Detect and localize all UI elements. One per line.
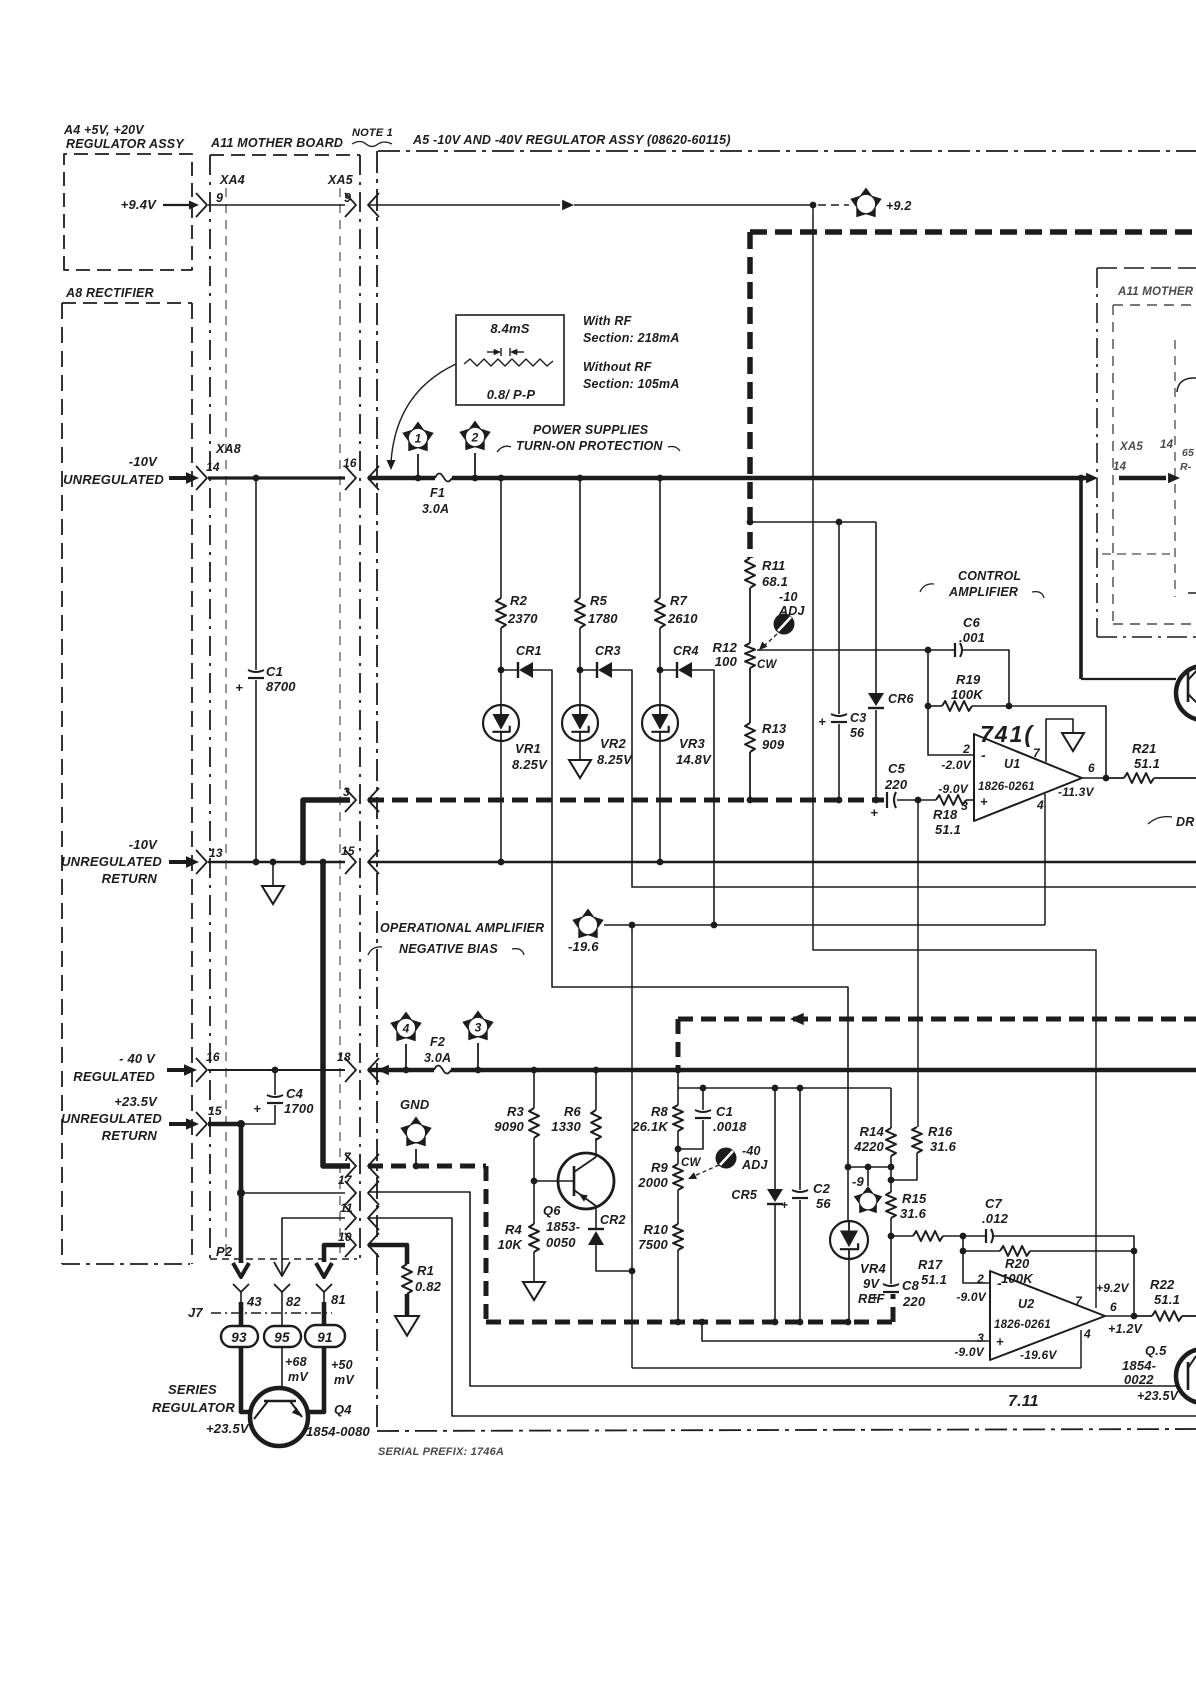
- svg-text:XA5: XA5: [1119, 441, 1143, 453]
- svg-text:-10V: -10V: [129, 454, 158, 469]
- svg-text:93: 93: [231, 1330, 247, 1345]
- zener VR4: [847, 1167, 849, 1221]
- XA4/XA8 pin column dashed line: [225, 188, 227, 1258]
- svg-text:+: +: [818, 714, 826, 729]
- net pill 95: [264, 1326, 301, 1347]
- zener VR2: [579, 670, 581, 705]
- A11 mother board dashed box: [210, 154, 360, 156]
- wire C3 column: [838, 522, 840, 714]
- svg-text:R15: R15: [902, 1191, 927, 1206]
- svg-text:+1.2V: +1.2V: [1108, 1322, 1143, 1336]
- svg-text:Section: 218mA: Section: 218mA: [583, 331, 680, 345]
- capacitor C5: [886, 792, 888, 808]
- svg-text:OPERATIONAL AMPLIFIER: OPERATIONAL AMPLIFIER: [380, 921, 544, 935]
- flag 3 pentagon: [462, 1011, 493, 1041]
- J7 pin 81 chevron: [316, 1284, 332, 1292]
- transistor Q5 (cut at page edge): [1176, 1349, 1196, 1403]
- svg-text:CR5: CR5: [731, 1188, 757, 1202]
- svg-text:-10: -10: [779, 590, 798, 604]
- svg-text:14.8V: 14.8V: [676, 752, 712, 767]
- +9.4V arrow into XA4: [163, 204, 193, 206]
- U1 pin 4 wire to -19.6 rail: [1044, 794, 1046, 925]
- svg-text:56: 56: [816, 1196, 831, 1211]
- heavy dashed -11.3V line: [678, 1017, 1196, 1022]
- svg-text:Q.5: Q.5: [1145, 1343, 1167, 1358]
- svg-text:A5 -10V AND -40V REGULATOR ASS: A5 -10V AND -40V REGULATOR ASSY (08620-6…: [412, 133, 731, 147]
- svg-text:43: 43: [246, 1294, 262, 1309]
- svg-text:4: 4: [1083, 1327, 1091, 1341]
- svg-text:ADJ: ADJ: [778, 604, 805, 618]
- svg-text:3.0A: 3.0A: [424, 1051, 451, 1065]
- svg-text:-10V: -10V: [129, 837, 158, 852]
- svg-text:R18: R18: [933, 807, 958, 822]
- wire Q6 emitter to CR2: [595, 1206, 597, 1229]
- capacitor C6 feedback: [928, 649, 955, 651]
- wire inverting input: [928, 650, 974, 755]
- wire C5 to R18: [897, 799, 936, 801]
- wire pin 17 feed: [241, 1192, 345, 1194]
- svg-text:REGULATOR: REGULATOR: [152, 1400, 235, 1415]
- resistor R7: [655, 598, 665, 628]
- heavy dashed -10V output sense line: [750, 229, 1196, 235]
- svg-text:3: 3: [977, 1331, 984, 1345]
- ground on return bus: [272, 862, 274, 886]
- svg-text:C1: C1: [266, 664, 283, 679]
- svg-text:SERIES: SERIES: [168, 1382, 217, 1397]
- XA8 pin 18 chevron pair: [345, 1058, 356, 1082]
- svg-text:7: 7: [1075, 1294, 1083, 1308]
- svg-text:17: 17: [338, 1173, 353, 1187]
- svg-text:+: +: [781, 1198, 788, 1212]
- ripple waveform zigzag: [464, 359, 553, 366]
- svg-text:UNREGULATED: UNREGULATED: [63, 472, 164, 487]
- svg-text:R5: R5: [590, 593, 608, 608]
- wire R14 bottom: [890, 1156, 892, 1167]
- svg-text:10K: 10K: [498, 1237, 524, 1252]
- wire R18 to U1 pin 3: [966, 799, 974, 801]
- svg-text:1700: 1700: [284, 1101, 314, 1116]
- svg-text:14: 14: [1113, 461, 1127, 473]
- trimpot wiper dashed: [763, 634, 777, 647]
- wire R9 to R10: [677, 1190, 679, 1224]
- flag 2 pentagon: [459, 421, 490, 451]
- svg-text:F2: F2: [430, 1035, 445, 1049]
- resistor R21: [1106, 777, 1124, 779]
- svg-text:ADJ: ADJ: [741, 1158, 768, 1172]
- svg-text:R-: R-: [1180, 461, 1192, 473]
- wire R7 branch: [659, 478, 661, 598]
- -40V bus junction dots: [403, 1067, 410, 1074]
- transistor Q6: [558, 1153, 614, 1209]
- svg-text:R11: R11: [762, 558, 785, 573]
- -10V arrow into XA8: [169, 476, 190, 480]
- flag 4 pentagon: [390, 1012, 421, 1042]
- diode CR5: [774, 1088, 776, 1189]
- svg-text:R4: R4: [505, 1222, 523, 1237]
- svg-text:741(: 741(: [980, 721, 1034, 747]
- svg-text:+9.2: +9.2: [886, 199, 911, 213]
- wire R11 to R12: [749, 588, 751, 643]
- XA8 pin 15b chevron: [196, 1112, 207, 1136]
- svg-text:With RF: With RF: [583, 314, 632, 328]
- svg-text:1826-0261: 1826-0261: [978, 781, 1035, 793]
- svg-text:C4: C4: [286, 1086, 304, 1101]
- wire VR4 to sense bus: [848, 1259, 850, 1322]
- flag +9.2 pentagon: [850, 188, 881, 218]
- wire R7 to CR4: [659, 628, 661, 670]
- svg-text:VR4: VR4: [860, 1261, 886, 1276]
- wire VR3 to return bus: [659, 741, 661, 862]
- A5 assembly bottom boundary dash-dot: [377, 1429, 1196, 1431]
- +23.5V arrow: [169, 1122, 190, 1126]
- trimpot -40 ADJ: [716, 1148, 737, 1169]
- capacitor C8 220: [890, 1236, 892, 1284]
- XA8 pin 7 chevron pair: [345, 1154, 356, 1178]
- wire +9.4V across mother board: [208, 204, 345, 206]
- svg-text:R14: R14: [860, 1124, 885, 1139]
- svg-text:U2: U2: [1018, 1297, 1034, 1311]
- svg-text:51.1: 51.1: [1154, 1292, 1180, 1307]
- svg-text:A11 MOTHER BOARD: A11 MOTHER BOARD: [210, 136, 343, 150]
- svg-text:-19.6V: -19.6V: [1020, 1348, 1057, 1362]
- zener VR1: [500, 670, 502, 705]
- svg-text:CW: CW: [757, 659, 778, 671]
- svg-text:CR6: CR6: [888, 692, 914, 706]
- svg-text:RETURN: RETURN: [102, 871, 158, 886]
- svg-text:8.25V: 8.25V: [512, 757, 548, 772]
- svg-text:C5: C5: [888, 761, 906, 776]
- svg-text:2000: 2000: [637, 1175, 668, 1190]
- svg-text:-9.0V: -9.0V: [956, 1290, 986, 1304]
- svg-text:R17: R17: [918, 1257, 943, 1272]
- svg-text:R22: R22: [1150, 1277, 1175, 1292]
- svg-text:R19: R19: [956, 672, 981, 687]
- wire return across mother board: [208, 861, 345, 863]
- flag 1 pentagon: [402, 422, 433, 452]
- resistor R22: [1134, 1315, 1152, 1317]
- svg-text:RETURN: RETURN: [102, 1128, 158, 1143]
- svg-text:UNREGULATED: UNREGULATED: [61, 854, 162, 869]
- op-amp U1: [974, 734, 1082, 821]
- wire -10V to driver transistor: [1079, 478, 1083, 679]
- svg-text:R1: R1: [417, 1263, 434, 1278]
- svg-text:7: 7: [1033, 746, 1041, 760]
- resistor R9: [677, 1149, 679, 1164]
- wire pin 11 left to P2 pin 82: [282, 1218, 345, 1262]
- svg-text:C3: C3: [850, 711, 866, 725]
- divider top rail: [678, 1087, 891, 1089]
- svg-text:C2: C2: [813, 1181, 831, 1196]
- svg-text:NOTE 1: NOTE 1: [352, 127, 393, 139]
- svg-text:R21: R21: [1132, 741, 1156, 756]
- svg-text:909: 909: [762, 737, 785, 752]
- resistor R6: [595, 1070, 597, 1110]
- svg-text:+9.2V: +9.2V: [1096, 1281, 1129, 1295]
- wire C5 node to R16: [917, 800, 919, 1127]
- A8 rectifier dashed box: [62, 302, 192, 304]
- svg-text:CR2: CR2: [600, 1213, 626, 1227]
- wire CR4 cathode run: [660, 669, 677, 671]
- fuse F2: [434, 1066, 451, 1074]
- heavy dashed -40V sense bus: [368, 1164, 486, 1169]
- svg-text:R16: R16: [928, 1124, 953, 1139]
- U1 pin 7 to ground: [1046, 719, 1073, 762]
- svg-text:+: +: [871, 1291, 878, 1305]
- svg-text:0.8/ P-P: 0.8/ P-P: [487, 387, 536, 402]
- node R19 left: [925, 703, 932, 710]
- svg-text:81: 81: [331, 1292, 346, 1307]
- svg-text:1: 1: [415, 432, 422, 446]
- heavy wire pin 10 left to P2 pin 81: [324, 1245, 345, 1262]
- svg-text:TURN-ON PROTECTION: TURN-ON PROTECTION: [516, 439, 663, 453]
- resistor R10: [673, 1224, 683, 1250]
- svg-text:POWER SUPPLIES: POWER SUPPLIES: [533, 423, 649, 437]
- -10V bus arrow into right column: [1086, 473, 1098, 484]
- svg-text:100K: 100K: [1001, 1271, 1034, 1286]
- wire +9.4V feed down to U2 pin 7: [813, 205, 1096, 1308]
- heavy wire pin 3 to return bus: [303, 800, 350, 862]
- wire CR6 column: [875, 522, 877, 693]
- heavy wire pill 93 to Q4 emitter: [241, 1347, 250, 1412]
- P2 pin 82 arrow: [281, 1262, 283, 1274]
- wire +9.4V into A5 with arrow: [368, 204, 560, 206]
- svg-text:1330: 1330: [551, 1119, 581, 1134]
- svg-text:+: +: [253, 1101, 261, 1116]
- -10V bus junction dots: [415, 475, 422, 482]
- wire R15 bottom: [890, 1218, 892, 1236]
- wire R12 to R13: [749, 668, 751, 723]
- wire R2 branch: [500, 478, 502, 598]
- svg-text:UNREGULATED: UNREGULATED: [61, 1111, 162, 1126]
- flag GND pentagon: [400, 1117, 431, 1147]
- svg-text:8700: 8700: [266, 679, 296, 694]
- svg-text:Q4: Q4: [334, 1402, 352, 1417]
- svg-text:-2.0V: -2.0V: [941, 758, 971, 772]
- wire C3 to bias bus: [838, 724, 840, 800]
- resistor R20: [962, 1236, 964, 1251]
- resistor R16: [912, 1127, 922, 1153]
- svg-text:1854-: 1854-: [1122, 1358, 1156, 1373]
- node R19 right: [1006, 703, 1013, 710]
- wire CR5 to sense bus: [774, 1204, 776, 1322]
- svg-text:2: 2: [471, 431, 479, 445]
- wire R2 to CR1: [500, 628, 502, 670]
- node R17 C7: [960, 1233, 967, 1240]
- wire pill 95 to Q4 base: [281, 1347, 283, 1388]
- capacitor C7 .012: [963, 1235, 986, 1237]
- -10V arrow inside right column: [1119, 476, 1166, 481]
- wire -10V across mother board: [208, 476, 345, 479]
- wire R5 to CR3: [579, 628, 581, 670]
- J7 pin 43 chevron: [233, 1284, 249, 1292]
- -40V bus arrow: [377, 1065, 389, 1076]
- resistor R3: [533, 1070, 535, 1108]
- right inner dashed divider: [1174, 340, 1176, 597]
- svg-text:2610: 2610: [667, 611, 698, 626]
- svg-text:AMPLIFIER: AMPLIFIER: [948, 585, 1018, 599]
- svg-text:4: 4: [402, 1022, 410, 1036]
- svg-text:XA5: XA5: [327, 173, 354, 187]
- svg-text:91: 91: [317, 1330, 332, 1345]
- heavy wire return to pin 7 row: [323, 862, 350, 1166]
- svg-text:CR3: CR3: [595, 644, 621, 658]
- ground below R1: [395, 1316, 419, 1336]
- svg-text:+50: +50: [331, 1358, 353, 1372]
- svg-text:14: 14: [1160, 439, 1174, 451]
- svg-text:XA4: XA4: [219, 173, 245, 187]
- diode CR6: [868, 693, 884, 706]
- svg-text:R12: R12: [713, 640, 738, 655]
- svg-text:mV: mV: [288, 1370, 309, 1384]
- svg-text:CR1: CR1: [516, 644, 542, 658]
- svg-text:15: 15: [208, 1104, 222, 1118]
- svg-text:+23.5V: +23.5V: [1137, 1389, 1180, 1403]
- svg-text:1826-0261: 1826-0261: [994, 1319, 1051, 1331]
- svg-text:SERIAL PREFIX: 1746A: SERIAL PREFIX: 1746A: [378, 1446, 504, 1458]
- svg-text:-: -: [997, 1275, 1002, 1291]
- trimpot -40 wiper dashed: [692, 1165, 719, 1177]
- svg-text:15: 15: [341, 844, 355, 858]
- U2 output wire: [1105, 1315, 1134, 1317]
- XA5 pin column dashed line: [339, 188, 341, 1258]
- wire -19.6 rail horizontal: [604, 924, 1045, 926]
- svg-text:0.82: 0.82: [415, 1279, 442, 1294]
- wire R5 branch: [579, 478, 581, 598]
- resistor R19 feedback: [928, 705, 942, 707]
- wire C7 to output node: [994, 1236, 1134, 1251]
- transistor Q driver (cut at page edge): [1176, 666, 1196, 720]
- svg-text:-9.0V: -9.0V: [938, 782, 968, 796]
- svg-text:+: +: [996, 1334, 1004, 1349]
- svg-text:Q6: Q6: [543, 1203, 561, 1218]
- svg-text:65: 65: [1182, 447, 1194, 459]
- P2 pin 81 arrow: [316, 1263, 332, 1277]
- svg-text:56: 56: [850, 726, 865, 740]
- reference node rail: [848, 1166, 891, 1168]
- svg-text:4220: 4220: [853, 1139, 884, 1154]
- svg-text:Without RF: Without RF: [583, 360, 652, 374]
- svg-text:Section: 105mA: Section: 105mA: [583, 377, 680, 391]
- svg-text:-40: -40: [742, 1144, 761, 1158]
- svg-text:XA8: XA8: [215, 442, 241, 456]
- waveform callout arrow: [391, 364, 456, 462]
- wire R13 to bias bus: [749, 752, 751, 800]
- svg-text:CW: CW: [681, 1157, 702, 1169]
- svg-text:A8 RECTIFIER: A8 RECTIFIER: [65, 286, 154, 300]
- diode CR3: [596, 662, 598, 678]
- svg-text:CONTROL: CONTROL: [958, 569, 1021, 583]
- svg-text:1853-: 1853-: [546, 1219, 580, 1234]
- svg-text:7500: 7500: [638, 1237, 668, 1252]
- svg-text:F1: F1: [430, 486, 445, 500]
- svg-text:.012: .012: [982, 1211, 1009, 1226]
- wire CR1 cathode run: [501, 669, 518, 671]
- -40V arrow: [167, 1068, 188, 1072]
- U1 output wire: [1082, 777, 1106, 779]
- svg-text:100: 100: [715, 654, 738, 669]
- wire -19.6 rail vertical: [631, 925, 633, 1368]
- heavy dashed bias bus: [368, 798, 884, 803]
- svg-text:26.1K: 26.1K: [631, 1119, 669, 1134]
- svg-text:U1: U1: [1004, 757, 1020, 771]
- sense bus bottom junction dots: [675, 1319, 682, 1326]
- svg-text:NEGATIVE BIAS: NEGATIVE BIAS: [399, 942, 498, 956]
- svg-text:0022: 0022: [1124, 1372, 1154, 1387]
- svg-text:- 40 V: - 40 V: [119, 1051, 156, 1066]
- svg-text:R8: R8: [651, 1104, 669, 1119]
- XA8 pin 16b chevron: [196, 1058, 207, 1082]
- resistor R2: [496, 598, 506, 628]
- capacitor C4 1700: [274, 1070, 276, 1095]
- wire pill 91 column heavy: [322, 1302, 327, 1325]
- wire U2 pin 3 to sense bus: [702, 1322, 990, 1341]
- resistor R11: [745, 558, 755, 588]
- svg-text:+68: +68: [285, 1355, 307, 1369]
- flag -19.6 pentagon: [572, 909, 603, 939]
- svg-text:3: 3: [475, 1021, 482, 1035]
- -10V return bus right: [368, 861, 1196, 864]
- svg-text:VR3: VR3: [679, 736, 705, 751]
- svg-text:+23.5V: +23.5V: [114, 1094, 158, 1109]
- svg-text:3: 3: [961, 799, 968, 813]
- transistor Q4: [250, 1388, 308, 1446]
- XA8 pin 11 chevron pair: [345, 1206, 356, 1230]
- svg-text:6: 6: [1088, 761, 1095, 775]
- svg-text:9: 9: [216, 191, 223, 205]
- svg-text:GND: GND: [400, 1097, 430, 1112]
- svg-text:51.1: 51.1: [1134, 756, 1160, 771]
- XA8 pin 13 chevron: [196, 850, 207, 874]
- bias bus junction dots: [747, 797, 754, 804]
- U2 pin 4 wire to -19.6 rail: [1080, 1330, 1082, 1368]
- right column hook wire: [1177, 378, 1196, 392]
- svg-text:31.6: 31.6: [930, 1139, 957, 1154]
- net pill 93: [221, 1326, 258, 1347]
- svg-text:C6: C6: [963, 615, 981, 630]
- return bus junction dots left: [253, 859, 260, 866]
- diode CR2: [588, 1228, 604, 1230]
- capacitor C3: [831, 714, 847, 716]
- svg-text:VR1: VR1: [515, 741, 541, 756]
- XA5 pin 9 chevron pair: [345, 193, 356, 217]
- heavy wire +23.5V return: [208, 1122, 243, 1127]
- svg-text:R13: R13: [762, 721, 787, 736]
- wire pin 11 right to +23.5V rail: [368, 1218, 1196, 1416]
- ground below VR2: [579, 741, 581, 760]
- resistor R8: [677, 1088, 679, 1105]
- wire CR6 to bias bus: [875, 710, 877, 800]
- wire C6 to R19 node: [962, 650, 1009, 706]
- waveform dimension arrows: [500, 348, 502, 356]
- XA8 pin 3 chevron pair: [345, 788, 356, 812]
- svg-text:R6: R6: [564, 1104, 582, 1119]
- svg-text:8.4mS: 8.4mS: [490, 321, 529, 336]
- capacitor C1 .0018: [702, 1088, 704, 1110]
- wire CR2 to -19.6 rail: [596, 1245, 632, 1271]
- svg-text:mV: mV: [334, 1373, 355, 1387]
- svg-text:R9: R9: [651, 1160, 669, 1175]
- svg-text:.0018: .0018: [713, 1119, 747, 1134]
- trimpot -10 ADJ: [774, 614, 795, 635]
- svg-text:9090: 9090: [494, 1119, 524, 1134]
- A11 right column outer box dash-dot: [1096, 268, 1098, 637]
- wire Q6 base: [534, 1180, 574, 1182]
- svg-text:R3: R3: [507, 1104, 525, 1119]
- svg-text:82: 82: [286, 1294, 301, 1309]
- zener VR3: [659, 670, 661, 705]
- svg-text:DR: DR: [1176, 815, 1194, 829]
- svg-text:1854-0080: 1854-0080: [306, 1424, 371, 1439]
